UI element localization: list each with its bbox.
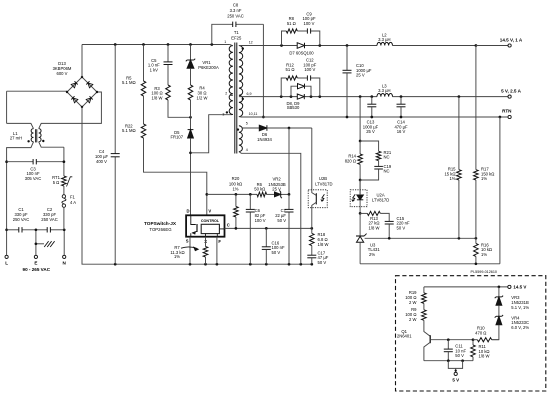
capacitor C1 bbox=[13, 207, 29, 232]
svg-text:50 kΩ: 50 kΩ bbox=[254, 187, 265, 192]
wire C8 branch bbox=[212, 24, 264, 117]
svg-text:12: 12 bbox=[249, 40, 253, 44]
wire bias column to VR2 node bbox=[288, 128, 290, 194]
svg-text:2N6401: 2N6401 bbox=[397, 334, 412, 339]
label PI-5599-012610 bbox=[470, 270, 496, 274]
svg-text:100 V: 100 V bbox=[255, 218, 266, 223]
svg-text:90 - 265 VAC: 90 - 265 VAC bbox=[23, 267, 51, 272]
svg-text:100 V: 100 V bbox=[304, 67, 315, 72]
wire S pin to bus bbox=[189, 237, 191, 265]
pin 10,11 bbox=[249, 112, 258, 116]
svg-text:14.5 V, 1 A: 14.5 V, 1 A bbox=[500, 37, 523, 42]
svg-text:2 W: 2 W bbox=[409, 317, 416, 322]
transformer T1 secondary winding bbox=[239, 46, 243, 117]
polarity dot secondary bbox=[242, 47, 244, 49]
op-amp U1 TOPSwitch-JX TOP266EG bbox=[144, 215, 224, 236]
pin 3 bbox=[222, 112, 224, 116]
resistor R13 bbox=[360, 211, 389, 230]
wire Q1 emitter bottom line bbox=[424, 359, 473, 362]
fuse F1 bbox=[62, 194, 76, 207]
bridge rectifier D13 bbox=[53, 61, 99, 108]
pin label V bbox=[208, 208, 211, 213]
zener VR4 bbox=[492, 315, 530, 340]
svg-text:PI-5599-012610: PI-5599-012610 bbox=[470, 270, 496, 274]
resistor R17 bbox=[474, 46, 495, 239]
resistor R5 bbox=[122, 45, 146, 97]
terminal 14.5V in box bbox=[508, 285, 527, 290]
terminal L bbox=[5, 255, 8, 265]
junction C8 to RTN bbox=[262, 116, 265, 119]
inductor L2 bbox=[377, 32, 393, 45]
capacitor C15 bbox=[385, 216, 410, 239]
common-mode choke L1 bbox=[10, 129, 41, 143]
wire 5V rail bbox=[239, 95, 508, 98]
label 90 - 265 VAC bbox=[23, 267, 51, 272]
svg-text:C: C bbox=[227, 223, 230, 228]
svg-text:L: L bbox=[5, 261, 8, 266]
capacitor C8 bbox=[227, 3, 243, 27]
wire choke right-bottom lead bbox=[39, 142, 64, 147]
wire RT1 column bbox=[63, 147, 66, 195]
wire AC L feeder bbox=[7, 142, 34, 255]
optocoupler U2B LTV817D bbox=[308, 176, 332, 208]
wire RTN down column bbox=[499, 117, 501, 264]
pin 4 bbox=[246, 148, 248, 152]
svg-text:1%: 1% bbox=[174, 254, 180, 259]
resistor R19 bbox=[405, 287, 426, 305]
thermistor RT1 bbox=[52, 175, 72, 186]
wire bias winding return pin 4 bbox=[239, 152, 301, 265]
resistor R16 bbox=[474, 238, 492, 263]
junction drain node bbox=[189, 151, 192, 154]
resistor R21 NC branch bbox=[360, 141, 392, 166]
capacitor C12 bbox=[303, 58, 316, 81]
terminal E bbox=[34, 255, 37, 265]
terminal 14.5V output bbox=[476, 37, 523, 47]
svg-text:5 Ω: 5 Ω bbox=[53, 180, 60, 185]
wire R14 to U2A LED bbox=[359, 180, 361, 195]
pin label F bbox=[218, 239, 221, 244]
svg-text:6.0 V, 2%: 6.0 V, 2% bbox=[511, 325, 529, 330]
svg-text:NC: NC bbox=[384, 155, 390, 160]
svg-text:1%: 1% bbox=[449, 176, 455, 181]
svg-text:4 A: 4 A bbox=[70, 200, 76, 205]
svg-text:10,11: 10,11 bbox=[249, 112, 258, 116]
svg-text:1%: 1% bbox=[232, 187, 238, 192]
transformer T1 bias winding bbox=[239, 126, 242, 152]
wire TL431 ref line bbox=[365, 237, 478, 240]
zener VR2 bbox=[268, 177, 286, 199]
svg-text:5 V: 5 V bbox=[452, 378, 459, 383]
svg-text:LTV817D: LTV817D bbox=[315, 181, 332, 186]
svg-text:2%: 2% bbox=[369, 252, 375, 257]
wire RTN rail bbox=[239, 116, 508, 119]
diode D9 bbox=[297, 94, 304, 99]
svg-text:470 Ω: 470 Ω bbox=[475, 331, 486, 336]
svg-text:50 V: 50 V bbox=[272, 250, 281, 255]
capacitor C17 bbox=[307, 246, 328, 265]
wire feedback bottom line bbox=[360, 262, 500, 265]
svg-text:D: D bbox=[186, 208, 189, 213]
snubber R8 C9 loop wires bbox=[282, 31, 320, 46]
polarity dots L1 bbox=[27, 140, 44, 143]
wire drain link to pin 3 bbox=[191, 114, 233, 152]
svg-text:25 V: 25 V bbox=[366, 129, 375, 134]
svg-text:100 V: 100 V bbox=[304, 21, 315, 26]
junction on L feeder at C3 bbox=[5, 160, 8, 231]
polarity dot primary bbox=[226, 111, 228, 113]
wire bridge AC left bbox=[7, 90, 67, 92]
diode D8 parallel branch bbox=[291, 84, 311, 97]
svg-text:TOP266EG: TOP266EG bbox=[149, 227, 172, 232]
terminal 5V in box bbox=[452, 372, 459, 382]
svg-text:16 V: 16 V bbox=[397, 129, 406, 134]
wire terminal E column bbox=[35, 228, 44, 255]
wire R4 to clamp junction bbox=[190, 100, 192, 117]
transistor Q1 2N6401 bbox=[397, 320, 448, 360]
wire 5V tap bracket bbox=[448, 361, 462, 373]
terminal 5V output bbox=[501, 88, 522, 98]
resistor R20 bbox=[229, 176, 242, 228]
resistor R4 bbox=[188, 68, 207, 100]
svg-text:SB530: SB530 bbox=[287, 105, 300, 110]
resistor R9 bbox=[405, 303, 426, 321]
capacitor C6 bbox=[246, 194, 266, 264]
svg-text:51 Ω: 51 Ω bbox=[287, 21, 296, 26]
capacitor C11 bbox=[444, 340, 467, 361]
pin 5 bbox=[246, 121, 248, 125]
svg-text:1/8 W: 1/8 W bbox=[152, 96, 163, 101]
svg-text:D7 60SQ100: D7 60SQ100 bbox=[289, 50, 314, 55]
svg-text:NC: NC bbox=[384, 169, 390, 174]
svg-text:25 V: 25 V bbox=[272, 187, 281, 192]
capacitor C10 bbox=[343, 46, 372, 118]
wire F1 to bottom line bbox=[63, 207, 65, 230]
svg-text:TOPSwitch-JX: TOPSwitch-JX bbox=[144, 221, 177, 226]
optocoupler U2A LTV817D bbox=[350, 180, 389, 213]
svg-text:U2B: U2B bbox=[319, 176, 327, 181]
resistor R10 bbox=[473, 326, 499, 342]
svg-text:2: 2 bbox=[225, 92, 227, 96]
diode D6 bbox=[241, 125, 311, 142]
resistor R3 bbox=[151, 65, 170, 101]
TVS VR1 bbox=[186, 45, 219, 70]
svg-text:2 W: 2 W bbox=[409, 300, 416, 305]
transformer T1 primary winding bbox=[229, 45, 233, 115]
wire R22 to V pin bbox=[144, 138, 209, 215]
resistor R14 bbox=[345, 97, 363, 182]
wire V pin line bbox=[207, 193, 291, 196]
svg-text:14.5 V: 14.5 V bbox=[513, 285, 526, 290]
wire terminal N column bbox=[63, 228, 66, 255]
svg-text:25 V: 25 V bbox=[356, 73, 365, 78]
capacitor C9 bbox=[302, 11, 315, 33]
pin label D bbox=[186, 208, 189, 213]
svg-text:5.1 MΩ: 5.1 MΩ bbox=[122, 128, 136, 133]
svg-text:400 V: 400 V bbox=[96, 159, 107, 164]
svg-text:3: 3 bbox=[222, 112, 224, 116]
svg-text:3.3 nF: 3.3 nF bbox=[230, 8, 242, 13]
terminal N bbox=[63, 255, 67, 265]
resistor R15 bbox=[444, 97, 461, 239]
svg-text:820 Ω: 820 Ω bbox=[345, 158, 356, 163]
capacitor C19 NC bbox=[360, 164, 392, 180]
capacitor C4 bbox=[95, 45, 120, 265]
svg-text:F1: F1 bbox=[70, 194, 76, 199]
snubber R12 C12 loop wires bbox=[281, 78, 320, 97]
svg-text:5: 5 bbox=[246, 121, 248, 125]
svg-text:5.1 MΩ: 5.1 MΩ bbox=[122, 80, 136, 85]
wire choke top line bbox=[7, 91, 102, 128]
pin 6,9 bbox=[247, 92, 252, 96]
svg-text:5 V, 2.5 A: 5 V, 2.5 A bbox=[501, 88, 522, 93]
inductor L3 bbox=[377, 83, 393, 96]
capacitor C2 bbox=[41, 207, 57, 232]
resistor R7 bbox=[170, 237, 207, 265]
terminal RTN bbox=[502, 109, 512, 119]
label D8 D9 SB530 bbox=[286, 101, 300, 110]
svg-text:600 V: 600 V bbox=[57, 71, 68, 76]
resistor R11 bbox=[471, 340, 490, 361]
pin label S bbox=[186, 239, 189, 244]
ground earth symbol bbox=[44, 241, 54, 247]
svg-text:1%: 1% bbox=[481, 252, 487, 257]
zener VR3 bbox=[495, 287, 530, 316]
pin label C bbox=[227, 223, 230, 228]
svg-text:250 VAC: 250 VAC bbox=[13, 217, 29, 222]
capacitor C7 bbox=[275, 194, 293, 264]
svg-text:250 VAC: 250 VAC bbox=[41, 217, 57, 222]
dashed enclosure box bbox=[396, 276, 546, 391]
svg-text:50 V: 50 V bbox=[277, 218, 286, 223]
svg-text:1N4934: 1N4934 bbox=[257, 137, 272, 142]
svg-text:50 V: 50 V bbox=[455, 353, 464, 358]
svg-text:1/8 W: 1/8 W bbox=[479, 354, 490, 359]
svg-text:C8: C8 bbox=[233, 3, 239, 8]
svg-text:T1: T1 bbox=[234, 30, 240, 35]
wire bridge minus and primary return bus bbox=[82, 107, 312, 264]
svg-text:1/8 W: 1/8 W bbox=[318, 242, 329, 247]
svg-text:305 VAC: 305 VAC bbox=[25, 176, 41, 181]
svg-text:3.3 µH: 3.3 µH bbox=[378, 37, 390, 42]
svg-text:V: V bbox=[208, 208, 211, 213]
svg-text:LTV817D: LTV817D bbox=[372, 197, 389, 202]
polarity dot secondary lower bbox=[242, 98, 244, 100]
svg-text:50 V: 50 V bbox=[397, 225, 406, 230]
svg-text:F: F bbox=[218, 239, 221, 244]
svg-text:RTN: RTN bbox=[502, 109, 512, 114]
svg-text:3.3 µH: 3.3 µH bbox=[378, 88, 390, 93]
transformer T1 EF25 label bbox=[231, 30, 242, 40]
resistor R22 bbox=[122, 96, 146, 138]
svg-text:1 kV: 1 kV bbox=[150, 68, 159, 73]
wire HV bus top bbox=[82, 43, 230, 46]
pin 2 bbox=[225, 92, 233, 96]
polarity dot bias bbox=[237, 128, 239, 130]
svg-text:CONTROL: CONTROL bbox=[201, 219, 220, 223]
shunt regulator U3 TL431 bbox=[356, 213, 380, 263]
wire Q1 base line bbox=[447, 338, 474, 341]
svg-text:1: 1 bbox=[224, 40, 226, 44]
wire 14.5V rail bbox=[239, 44, 508, 47]
capacitor C16 bbox=[262, 228, 285, 264]
wire box top 14.5V bbox=[424, 286, 508, 289]
diode D7 bbox=[289, 43, 314, 56]
svg-text:5.1 V, 1%: 5.1 V, 1% bbox=[511, 305, 529, 310]
resistor R6 bbox=[254, 182, 266, 197]
svg-text:4: 4 bbox=[246, 148, 248, 152]
svg-text:6,9: 6,9 bbox=[247, 92, 252, 96]
svg-text:1%: 1% bbox=[481, 176, 487, 181]
svg-text:1/2 W: 1/2 W bbox=[197, 95, 208, 100]
svg-text:250 VAC: 250 VAC bbox=[227, 13, 243, 18]
svg-text:P6KE200A: P6KE200A bbox=[198, 65, 219, 70]
svg-text:1/8 W: 1/8 W bbox=[369, 225, 380, 230]
capacitor C5 bbox=[148, 45, 173, 73]
transformer T1 core bbox=[235, 43, 237, 154]
pin 12 bbox=[249, 40, 253, 44]
svg-text:27 mH: 27 mH bbox=[10, 136, 22, 141]
wire C pin line bbox=[225, 227, 314, 230]
diode D5 bbox=[171, 117, 194, 215]
wire bridge plus riser bbox=[81, 45, 83, 78]
wire R3 to clamp junction bbox=[168, 100, 192, 119]
svg-text:50 V: 50 V bbox=[318, 260, 327, 265]
resistor R8 bbox=[286, 16, 297, 33]
resistor R12 bbox=[286, 62, 298, 80]
capacitor C3 bbox=[25, 159, 41, 181]
pin label X bbox=[204, 239, 207, 244]
svg-text:S: S bbox=[186, 239, 189, 244]
capacitor C14 bbox=[394, 97, 408, 135]
svg-text:EF25: EF25 bbox=[231, 36, 242, 41]
wire C3 line bbox=[7, 161, 64, 163]
svg-text:51 Ω: 51 Ω bbox=[286, 67, 295, 72]
junctions on primary return bus bbox=[114, 263, 313, 266]
junction bias node bbox=[288, 127, 291, 130]
wire bias to U2B collector bbox=[311, 128, 313, 190]
svg-text:E: E bbox=[34, 261, 37, 266]
svg-text:FR107: FR107 bbox=[171, 135, 184, 140]
junction LED cathode node bbox=[359, 212, 362, 215]
wire U2B emitter to C line bbox=[311, 208, 313, 229]
pin 1 bbox=[224, 40, 226, 44]
resistor R18 bbox=[310, 228, 329, 246]
wire F pin to bus bbox=[216, 237, 218, 265]
wire AC bottom line C1 C2 bbox=[7, 229, 65, 231]
capacitor C13 bbox=[363, 97, 379, 135]
